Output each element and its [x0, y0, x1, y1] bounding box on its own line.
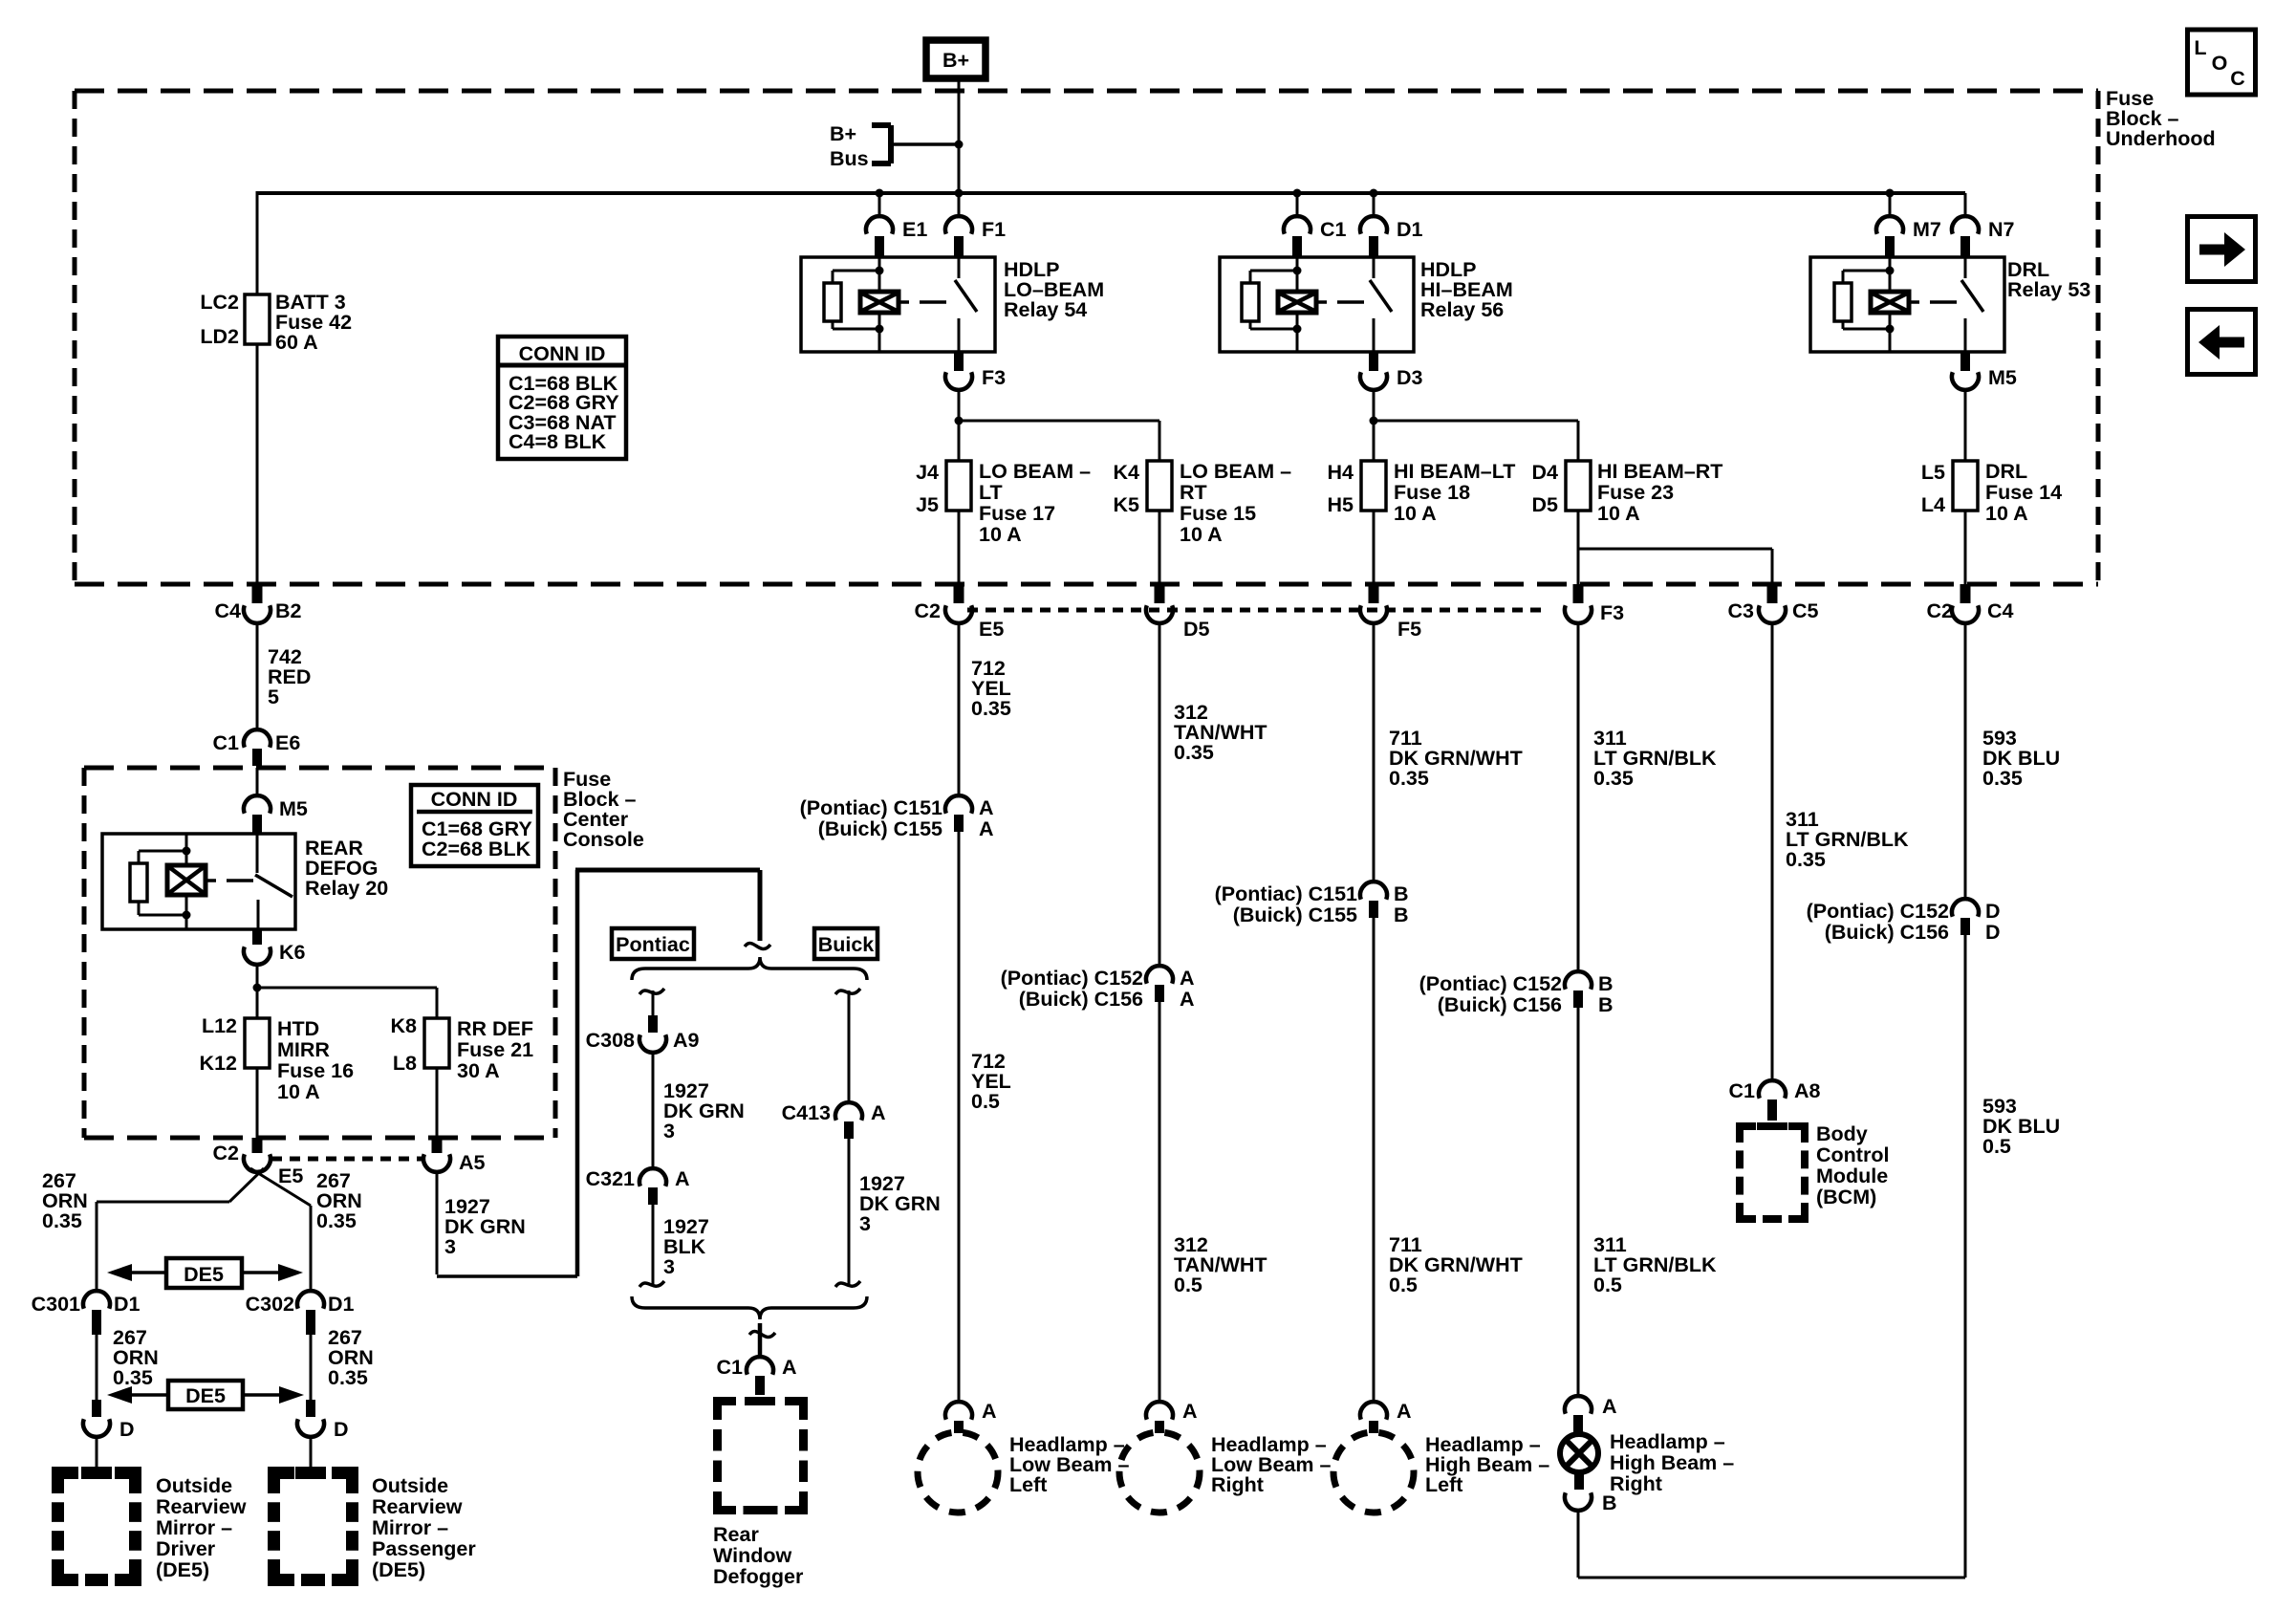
- svg-text:A: A: [1397, 1400, 1412, 1423]
- svg-text:A: A: [982, 1400, 997, 1423]
- svg-text:J4: J4: [916, 461, 939, 484]
- svg-text:(Buick) C156: (Buick) C156: [1438, 993, 1562, 1016]
- connector K6: [244, 929, 306, 965]
- svg-text:N7: N7: [1988, 218, 2015, 241]
- headlamp low beam right: [1119, 1432, 1331, 1513]
- svg-text:Fuse 21: Fuse 21: [457, 1038, 533, 1061]
- svg-text:C4=8 BLK: C4=8 BLK: [509, 430, 607, 453]
- bulb headlamp high beam right: [1560, 1430, 1734, 1495]
- connector C2-C4: [1927, 584, 2014, 623]
- fuse block center console label: [563, 768, 644, 851]
- svg-text:(Buick) C155: (Buick) C155: [818, 817, 942, 840]
- headlamp high beam left: [1333, 1432, 1549, 1513]
- fuse block center console dashed box: [84, 768, 555, 1138]
- connector A lamp low left: [945, 1400, 997, 1433]
- LOC legend box: [2188, 30, 2256, 95]
- svg-text:C1: C1: [1729, 1079, 1756, 1102]
- svg-text:LD2: LD2: [200, 325, 239, 348]
- svg-text:CONN ID: CONN ID: [519, 342, 606, 365]
- connector F1: [945, 216, 1006, 257]
- svg-text:C2: C2: [1927, 599, 1954, 622]
- svg-text:C4: C4: [1987, 599, 2014, 622]
- connector C3-C5: [1728, 584, 1819, 623]
- svg-text:Outside: Outside: [156, 1474, 232, 1497]
- svg-text:0.5: 0.5: [971, 1090, 1000, 1113]
- svg-text:0.35: 0.35: [1174, 741, 1214, 764]
- splice DE5 lower: [107, 1381, 304, 1409]
- arrow left legend box: [2188, 310, 2256, 375]
- svg-text:D1: D1: [1397, 218, 1423, 241]
- svg-text:DRL: DRL: [1985, 460, 2027, 483]
- fuse F17 LO BEAM LT 10A: [916, 460, 1091, 546]
- node B+ bus junction: [955, 141, 964, 149]
- svg-text:C321: C321: [586, 1167, 635, 1190]
- svg-text:C301: C301: [32, 1293, 80, 1316]
- svg-text:30 A: 30 A: [457, 1059, 500, 1082]
- svg-text:Mirror –: Mirror –: [372, 1516, 448, 1539]
- svg-text:A: A: [782, 1356, 797, 1379]
- svg-text:10 A: 10 A: [1597, 502, 1640, 525]
- svg-text:0.5: 0.5: [1174, 1274, 1202, 1296]
- svg-text:A: A: [675, 1167, 690, 1190]
- svg-text:0.5: 0.5: [1389, 1274, 1418, 1296]
- node bus-E1: [876, 189, 884, 198]
- svg-text:0.35: 0.35: [113, 1366, 153, 1389]
- fuse F14 DRL 10A: [1921, 460, 2062, 525]
- svg-text:(DE5): (DE5): [372, 1558, 425, 1581]
- svg-text:C2: C2: [915, 599, 942, 622]
- wire 1927 BLK pontiac: [653, 1205, 709, 1285]
- wire bus to M7: [1889, 193, 1892, 217]
- svg-text:3: 3: [663, 1120, 675, 1143]
- relay K20 REAR DEFOG Relay 20: [102, 834, 295, 929]
- node bus-M7: [1886, 189, 1895, 198]
- svg-text:(Buick) C156: (Buick) C156: [1825, 921, 1949, 944]
- svg-text:Driver: Driver: [156, 1537, 216, 1560]
- svg-text:C5: C5: [1792, 599, 1819, 622]
- wire 712 YEL 0.35: [959, 623, 1011, 795]
- fuse block underhood label: [2106, 87, 2216, 150]
- svg-text:A: A: [1180, 967, 1195, 990]
- connector C2-E5 underhood: [915, 584, 1005, 641]
- relay 56 label: [1420, 258, 1513, 321]
- svg-text:0.35: 0.35: [1593, 767, 1634, 790]
- wire 311 LT GRN/BLK 0.5: [1578, 1008, 1717, 1396]
- svg-text:B: B: [1598, 972, 1614, 995]
- svg-text:E5: E5: [979, 618, 1004, 641]
- svg-text:Mirror –: Mirror –: [156, 1516, 232, 1539]
- connector F3 relay 54: [945, 352, 1006, 390]
- svg-text:0.35: 0.35: [1389, 767, 1429, 790]
- rear window defogger box: [713, 1402, 804, 1589]
- connector D driver mirror: [83, 1400, 135, 1441]
- svg-text:(Pontiac) C152: (Pontiac) C152: [1419, 972, 1562, 995]
- CONN ID table underhood: [498, 337, 626, 459]
- svg-text:MIRR: MIRR: [277, 1038, 330, 1061]
- relay 20 label: [305, 837, 388, 900]
- wire bus to C1: [1296, 193, 1299, 217]
- relay 53 label: [2007, 258, 2090, 301]
- svg-text:C: C: [2230, 67, 2245, 90]
- connector C308-A9: [586, 991, 700, 1053]
- svg-text:Buick: Buick: [818, 933, 875, 956]
- svg-text:Left: Left: [1425, 1473, 1462, 1496]
- svg-text:D: D: [334, 1418, 349, 1441]
- wire 312 TAN/WHT 0.35: [1159, 623, 1267, 966]
- svg-text:Console: Console: [563, 828, 644, 851]
- connector A lamp low right: [1146, 1400, 1198, 1433]
- svg-text:Underhood: Underhood: [2106, 127, 2216, 150]
- svg-text:3: 3: [663, 1255, 675, 1278]
- svg-text:0.5: 0.5: [1982, 1135, 2011, 1158]
- svg-text:DE5: DE5: [184, 1263, 224, 1286]
- wire to rear defogger: [758, 1323, 763, 1357]
- svg-text:C1: C1: [717, 1356, 744, 1379]
- svg-text:D5: D5: [1532, 493, 1559, 516]
- wire 311 LT GRN/BLK 0.35 C3: [1772, 623, 1909, 1080]
- svg-text:0.35: 0.35: [1982, 767, 2023, 790]
- svg-text:Rearview: Rearview: [156, 1495, 247, 1518]
- wire to driver mirror: [96, 1437, 98, 1467]
- CONN ID table center console: [411, 785, 538, 866]
- svg-text:B+: B+: [830, 122, 856, 145]
- connector M7: [1876, 216, 1941, 257]
- connector A5: [423, 1138, 486, 1174]
- svg-text:Left: Left: [1009, 1473, 1047, 1496]
- svg-text:A9: A9: [673, 1029, 700, 1052]
- connector A lamp high right: [1565, 1395, 1617, 1433]
- svg-text:D3: D3: [1397, 366, 1423, 389]
- svg-text:Fuse 15: Fuse 15: [1180, 502, 1256, 525]
- connector C413-A: [782, 991, 886, 1139]
- wire main feed bus: [257, 191, 1965, 195]
- brand split brace: [632, 957, 867, 980]
- svg-text:B: B: [1394, 903, 1409, 926]
- svg-text:0.35: 0.35: [42, 1209, 82, 1232]
- brand merge brace: [632, 1296, 867, 1319]
- svg-text:A: A: [1180, 988, 1195, 1011]
- svg-text:A: A: [1602, 1395, 1617, 1418]
- svg-text:Fuse 17: Fuse 17: [979, 502, 1055, 525]
- svg-text:H4: H4: [1328, 461, 1354, 484]
- svg-text:D: D: [119, 1418, 135, 1441]
- wire 312 TAN/WHT 0.5: [1159, 1002, 1267, 1402]
- connector row dotted underhood: [967, 608, 1542, 613]
- svg-text:0.35: 0.35: [316, 1209, 357, 1232]
- svg-text:LT: LT: [979, 481, 1003, 504]
- svg-text:D: D: [1985, 921, 2001, 944]
- wire break curl below brace: [749, 1332, 775, 1338]
- connector B lamp high right: [1565, 1473, 1617, 1514]
- svg-text:K4: K4: [1114, 461, 1140, 484]
- connector C301-D1: [32, 1291, 141, 1335]
- svg-text:D1: D1: [114, 1293, 141, 1316]
- svg-text:Fuse 23: Fuse 23: [1597, 481, 1674, 504]
- svg-text:RT: RT: [1180, 481, 1207, 504]
- wire fuse 14 to C2-C4: [1964, 511, 1967, 584]
- wire E5 split to mirrors: [97, 1168, 311, 1292]
- wire 1927 DK GRN pontiac: [653, 1053, 745, 1168]
- fuse F21 RR DEF 30A: [391, 1014, 534, 1082]
- wire bus to D1: [1373, 193, 1375, 217]
- node bus-D1: [1370, 189, 1378, 198]
- relay 54 label: [1004, 258, 1104, 321]
- connector M5 rear defog relay: [244, 768, 308, 833]
- wire curl buick branch bottom: [835, 1281, 860, 1287]
- svg-text:HTD: HTD: [277, 1017, 319, 1040]
- wire 311 LT GRN/BLK 0.35 F3: [1578, 623, 1717, 971]
- wire 267 ORN driver: [97, 1326, 159, 1404]
- svg-text:D5: D5: [1183, 618, 1210, 641]
- B+ power symbol: [926, 40, 986, 78]
- svg-text:Passenger: Passenger: [372, 1537, 476, 1560]
- wire 711 DK GRN/WHT 0.5: [1374, 918, 1523, 1402]
- svg-text:Relay 54: Relay 54: [1004, 298, 1087, 321]
- svg-text:10 A: 10 A: [1180, 523, 1223, 546]
- wire bus to fuse 42: [256, 191, 259, 294]
- svg-text:Rearview: Rearview: [372, 1495, 463, 1518]
- svg-text:DK GRN: DK GRN: [663, 1099, 745, 1122]
- wire fuse 18 to F5: [1373, 511, 1375, 584]
- wire A5 to brand split: [437, 870, 760, 1276]
- wire 1927 DK GRN buick: [849, 1139, 941, 1285]
- svg-text:H5: H5: [1328, 493, 1354, 516]
- svg-text:(BCM): (BCM): [1816, 1186, 1876, 1208]
- connector D1 relay 56: [1360, 216, 1423, 257]
- splice DE5 upper: [107, 1258, 303, 1288]
- svg-text:Relay 53: Relay 53: [2007, 278, 2090, 301]
- svg-text:RR DEF: RR DEF: [457, 1017, 533, 1040]
- svg-text:Body: Body: [1816, 1122, 1868, 1145]
- svg-text:F1: F1: [982, 218, 1006, 241]
- wire 711 DK GRN/WHT 0.35: [1374, 623, 1523, 882]
- svg-text:(DE5): (DE5): [156, 1558, 209, 1581]
- svg-text:A: A: [1182, 1400, 1198, 1423]
- svg-text:A: A: [871, 1101, 886, 1124]
- wire M5 to fuse 14: [1964, 390, 1967, 461]
- wire 712 YEL 0.5: [959, 832, 1011, 1402]
- wire K6 to fuses: [253, 965, 438, 1018]
- svg-text:CONN ID: CONN ID: [431, 788, 518, 811]
- svg-text:B: B: [1394, 882, 1409, 905]
- wire lamp B return: [1578, 935, 1965, 1578]
- svg-text:3: 3: [444, 1235, 456, 1258]
- svg-text:Fuse 16: Fuse 16: [277, 1059, 354, 1082]
- connector D5: [1146, 584, 1210, 641]
- svg-text:0.35: 0.35: [971, 697, 1011, 720]
- svg-text:K12: K12: [200, 1052, 237, 1075]
- fuse F23 HI BEAM RT 10A: [1532, 460, 1723, 525]
- svg-text:E5: E5: [278, 1165, 303, 1187]
- svg-text:D4: D4: [1532, 461, 1559, 484]
- svg-text:D1: D1: [328, 1293, 355, 1316]
- svg-text:Right: Right: [1610, 1472, 1662, 1495]
- svg-text:F5: F5: [1397, 618, 1421, 641]
- svg-text:C2: C2: [213, 1142, 240, 1165]
- svg-text:DK GRN: DK GRN: [444, 1215, 526, 1238]
- wire fuse 15 to D5: [1159, 511, 1161, 584]
- svg-text:Defogger: Defogger: [713, 1565, 804, 1588]
- node bus-F1: [955, 189, 964, 198]
- svg-text:10 A: 10 A: [979, 523, 1022, 546]
- svg-text:Relay 56: Relay 56: [1420, 298, 1504, 321]
- connector N7: [1952, 216, 2015, 257]
- connector C4-B2: [215, 584, 302, 623]
- svg-text:Outside: Outside: [372, 1474, 448, 1497]
- relay K53 DRL Relay 53: [1810, 257, 2004, 352]
- svg-text:C1: C1: [213, 731, 240, 754]
- fuse F15 LO BEAM RT 10A: [1114, 460, 1292, 546]
- svg-text:DK GRN: DK GRN: [859, 1192, 941, 1215]
- svg-text:M5: M5: [1988, 366, 2017, 389]
- svg-text:LO BEAM –: LO BEAM –: [979, 460, 1091, 483]
- connector C302-D1: [246, 1291, 355, 1335]
- svg-text:K6: K6: [279, 941, 306, 964]
- svg-text:Fuse 18: Fuse 18: [1394, 481, 1470, 504]
- arrow right legend box: [2188, 217, 2256, 282]
- headlamp low beam left: [918, 1432, 1129, 1513]
- svg-text:E1: E1: [902, 218, 927, 241]
- svg-text:Headlamp –: Headlamp –: [1610, 1430, 1725, 1453]
- svg-text:HI BEAM–RT: HI BEAM–RT: [1597, 460, 1722, 483]
- connector D3 relay 56: [1360, 352, 1423, 390]
- svg-text:K8: K8: [391, 1014, 418, 1037]
- svg-text:(Buick) C156: (Buick) C156: [1019, 988, 1143, 1011]
- fuse block underhood dashed box: [75, 91, 2098, 584]
- wire F3 to lo-beam fuses: [955, 390, 1160, 461]
- wire label 1927 DK GRN A5: [444, 1195, 526, 1258]
- connector F3 underhood: [1565, 584, 1624, 624]
- connector C1-E6: [213, 729, 301, 766]
- wire curl buick branch top: [835, 989, 860, 994]
- svg-text:B+: B+: [942, 49, 969, 72]
- svg-text:3: 3: [859, 1212, 871, 1235]
- svg-text:5: 5: [268, 686, 279, 708]
- svg-text:C3: C3: [1728, 599, 1755, 622]
- svg-text:Pontiac: Pontiac: [616, 933, 690, 956]
- svg-text:L8: L8: [393, 1052, 417, 1075]
- wire bus corner to N7: [1963, 193, 1965, 217]
- outside rearview mirror driver box: [58, 1473, 247, 1582]
- connector C1 relay 56: [1284, 216, 1347, 257]
- svg-text:Window: Window: [713, 1544, 791, 1567]
- connector C1-A8 BCM: [1729, 1079, 1821, 1121]
- svg-text:C4: C4: [215, 599, 242, 622]
- fuse F42 BATT 3 60A: [200, 291, 352, 354]
- svg-text:L: L: [2194, 36, 2206, 59]
- connector C152-C156 A: [1001, 966, 1195, 1011]
- wire label 267 ORN right: [316, 1169, 362, 1232]
- svg-text:(Pontiac) C152: (Pontiac) C152: [1001, 967, 1143, 990]
- connector C321-A: [586, 1167, 690, 1205]
- svg-text:0.35: 0.35: [1786, 848, 1826, 871]
- connector row dotted center console: [271, 1157, 423, 1162]
- svg-text:Control: Control: [1816, 1143, 1889, 1166]
- svg-text:High Beam –: High Beam –: [1610, 1451, 1734, 1474]
- svg-text:Relay 20: Relay 20: [305, 877, 388, 900]
- svg-text:Module: Module: [1816, 1165, 1888, 1187]
- svg-text:Rear: Rear: [713, 1523, 759, 1546]
- outside rearview mirror passenger box: [274, 1473, 477, 1582]
- relay K56 HDLP HI-BEAM Relay 56: [1220, 257, 1414, 352]
- connector D passenger mirror: [297, 1400, 349, 1441]
- svg-text:Fuse 14: Fuse 14: [1985, 481, 2062, 504]
- fuse F16 HTD MIRR 10A: [200, 988, 355, 1103]
- wire fuse 21 to A5: [436, 1068, 439, 1138]
- Pontiac label: [612, 928, 694, 959]
- svg-text:C1: C1: [1320, 218, 1347, 241]
- svg-text:10 A: 10 A: [1394, 502, 1437, 525]
- svg-text:M5: M5: [279, 797, 308, 820]
- svg-text:LO BEAM –: LO BEAM –: [1180, 460, 1291, 483]
- svg-text:O: O: [2212, 52, 2228, 75]
- wire 593 DK BLU 0.5: [1982, 1095, 2060, 1158]
- svg-text:B2: B2: [275, 599, 302, 622]
- wire 267 ORN passenger: [311, 1326, 374, 1404]
- Buick label: [814, 928, 877, 959]
- svg-text:HI BEAM–LT: HI BEAM–LT: [1394, 460, 1515, 483]
- B+ bus bracket: [830, 122, 959, 170]
- svg-text:C308: C308: [586, 1029, 635, 1052]
- svg-text:D: D: [1985, 900, 2001, 923]
- svg-text:C2=68 BLK: C2=68 BLK: [422, 838, 531, 860]
- relay K54 HDLP LO-BEAM Relay 54: [801, 257, 995, 352]
- wire 742 RED 5: [257, 623, 311, 729]
- svg-text:E6: E6: [275, 731, 300, 754]
- connector E1: [866, 216, 927, 257]
- svg-text:A5: A5: [459, 1151, 486, 1174]
- wire 593 DK BLU 0.35: [1965, 623, 2060, 899]
- svg-text:60 A: 60 A: [275, 331, 318, 354]
- svg-text:(Buick) C155: (Buick) C155: [1233, 903, 1357, 926]
- wire curl pontiac branch top: [639, 989, 664, 994]
- svg-text:L5: L5: [1921, 461, 1945, 484]
- svg-text:A: A: [979, 817, 994, 840]
- svg-text:Right: Right: [1211, 1473, 1264, 1496]
- svg-text:K5: K5: [1114, 493, 1140, 516]
- svg-text:0.5: 0.5: [1593, 1274, 1622, 1296]
- svg-text:L4: L4: [1921, 493, 1945, 516]
- svg-text:L12: L12: [202, 1014, 237, 1037]
- wire fuse 42 to C4: [256, 344, 259, 584]
- svg-text:0.35: 0.35: [328, 1366, 368, 1389]
- connector C151-C155 B: [1215, 882, 1409, 926]
- svg-text:DE5: DE5: [185, 1384, 226, 1407]
- svg-text:A8: A8: [1794, 1079, 1821, 1102]
- wire fuse 17 to E5: [958, 511, 961, 584]
- connector C152-C156 D: [1807, 899, 2001, 944]
- wire break curl above brace: [745, 944, 770, 949]
- connector C151-C155 A: [800, 795, 994, 840]
- node bus-C1: [1293, 189, 1302, 198]
- svg-text:10 A: 10 A: [277, 1080, 320, 1103]
- connector C152-C156 B: [1419, 971, 1614, 1016]
- svg-text:B: B: [1602, 1491, 1617, 1514]
- svg-text:F3: F3: [1600, 601, 1624, 624]
- svg-text:Bus: Bus: [830, 147, 869, 170]
- body control module box: [1740, 1122, 1889, 1219]
- connector C1-A defogger: [717, 1356, 797, 1395]
- svg-text:J5: J5: [916, 493, 939, 516]
- wire fuse 16 to C2: [256, 1068, 259, 1138]
- wire to passenger mirror: [310, 1437, 313, 1467]
- wire D3 to hi-beam fuses: [1370, 390, 1579, 461]
- svg-text:M7: M7: [1913, 218, 1941, 241]
- svg-text:(Pontiac) C152: (Pontiac) C152: [1807, 900, 1949, 923]
- svg-text:(Pontiac) C151: (Pontiac) C151: [800, 796, 942, 819]
- svg-text:C302: C302: [246, 1293, 294, 1316]
- svg-text:(Pontiac) C151: (Pontiac) C151: [1215, 882, 1357, 905]
